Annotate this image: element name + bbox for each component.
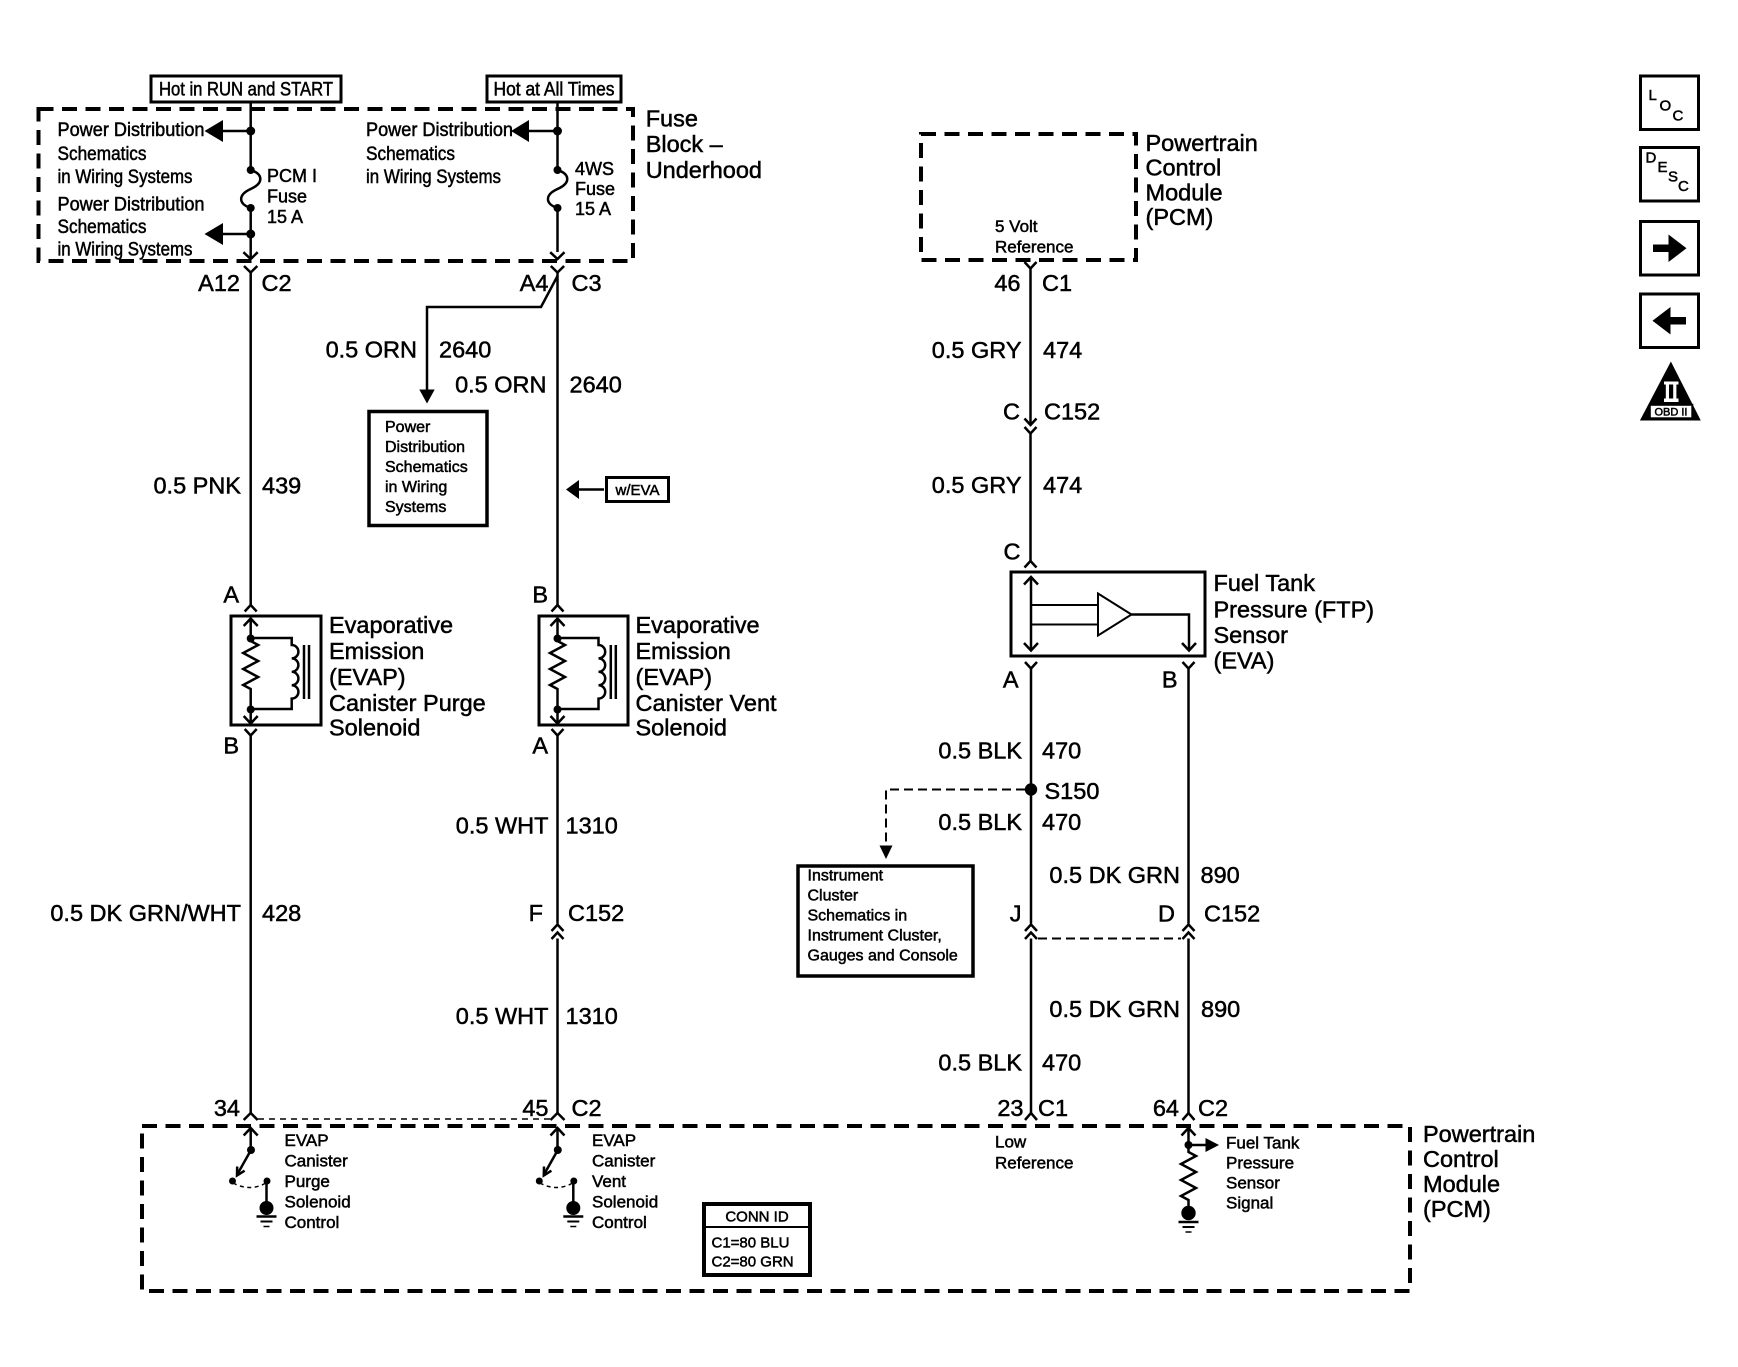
purge solenoid internal up arrow — [244, 619, 258, 627]
connector fork 46 C1 — [1025, 262, 1037, 269]
svg-text:0.5 WHT: 0.5 WHT — [456, 1003, 549, 1029]
svg-text:Powertrain: Powertrain — [1423, 1121, 1535, 1147]
svg-text:Schematics: Schematics — [58, 217, 147, 238]
svg-text:Module: Module — [1146, 179, 1223, 205]
svg-text:2640: 2640 — [570, 372, 622, 398]
svg-text:Block –: Block – — [646, 131, 724, 157]
svg-text:A: A — [1003, 667, 1019, 693]
junction dot W1 arrow1 — [246, 127, 255, 136]
purge solenoid resistor — [243, 639, 258, 710]
branch wire to power distribution box — [427, 276, 558, 390]
svg-text:C152: C152 — [568, 900, 624, 926]
svg-text:Vent: Vent — [592, 1172, 626, 1191]
svg-text:474: 474 — [1043, 337, 1082, 363]
svg-text:5 Volt: 5 Volt — [995, 217, 1038, 236]
svg-text:C2: C2 — [262, 270, 292, 296]
svg-text:Fuel Tank: Fuel Tank — [1226, 1134, 1300, 1153]
wire W1 lower vertical — [249, 736, 252, 1114]
svg-text:0.5 BLK: 0.5 BLK — [938, 809, 1022, 835]
svg-text:C2=80 GRN: C2=80 GRN — [712, 1254, 794, 1271]
svg-text:64: 64 — [1153, 1095, 1179, 1121]
ftp output wire — [1132, 615, 1190, 651]
vent driver ground — [563, 1215, 583, 1218]
vent solenoid internal up arrow — [551, 619, 565, 627]
purge solenoid internal down arrow — [249, 710, 252, 724]
fuse F2 4WS 15A — [554, 166, 562, 174]
svg-text:Sensor: Sensor — [1226, 1174, 1280, 1193]
svg-text:(EVA): (EVA) — [1214, 648, 1275, 674]
svg-text:S150: S150 — [1045, 778, 1100, 804]
w/EVA tag box — [607, 478, 669, 502]
wire W2 below C152 — [556, 939, 559, 1114]
svg-text:Control: Control — [285, 1213, 340, 1232]
icon DESC box — [1641, 148, 1699, 202]
arrow down at fuse box exit W2 — [550, 252, 564, 259]
svg-text:Signal: Signal — [1226, 1194, 1273, 1213]
svg-text:0.5 BLK: 0.5 BLK — [938, 1050, 1022, 1076]
svg-text:890: 890 — [1201, 862, 1240, 888]
purge solenoid core lines — [303, 645, 306, 699]
svg-text:Fuel Tank: Fuel Tank — [1214, 570, 1316, 596]
svg-text:Purge: Purge — [285, 1172, 330, 1191]
svg-text:470: 470 — [1042, 738, 1081, 764]
purge driver ground — [257, 1215, 277, 1218]
svg-text:0.5 ORN: 0.5 ORN — [326, 337, 417, 363]
svg-text:1310: 1310 — [566, 1003, 618, 1029]
svg-text:Sensor: Sensor — [1214, 622, 1289, 648]
svg-text:Solenoid: Solenoid — [329, 715, 420, 741]
svg-text:in Wiring Systems: in Wiring Systems — [366, 167, 501, 188]
wire W1 below fuse — [249, 208, 252, 252]
wire W3 upper vertical — [1029, 269, 1032, 425]
PCM bottom dashed box — [142, 1126, 1410, 1291]
svg-text:Canister Vent: Canister Vent — [636, 690, 778, 716]
ftp signal arrow right — [1189, 1144, 1207, 1147]
purge driver dashed throw arc — [233, 1183, 266, 1188]
svg-text:(EVAP): (EVAP) — [329, 664, 406, 690]
wire W4 from ftp B to D — [1187, 669, 1190, 924]
svg-text:C2: C2 — [1198, 1095, 1228, 1121]
svg-text:Fuse: Fuse — [575, 179, 615, 199]
svg-text:Gauges and Console: Gauges and Console — [808, 948, 958, 965]
svg-text:A12: A12 — [198, 270, 240, 296]
svg-text:A: A — [223, 582, 239, 608]
svg-text:Hot in RUN and START: Hot in RUN and START — [159, 80, 333, 101]
purge solenoid coil — [251, 638, 299, 709]
vent solenoid coil — [558, 638, 606, 709]
connector fork terminal B ftp — [1183, 662, 1195, 669]
header box Hot in RUN and START — [151, 76, 341, 102]
svg-text:in Wiring Systems: in Wiring Systems — [58, 167, 193, 188]
header box Hot at All Times — [487, 76, 621, 102]
vent solenoid bottom junction dot — [554, 706, 562, 714]
svg-text:Low: Low — [995, 1133, 1027, 1152]
vent driver dashed throw arc — [540, 1183, 573, 1188]
vent driver switch arm — [544, 1150, 558, 1174]
vent solenoid top junction dot — [554, 635, 562, 643]
svg-text:0.5 ORN: 0.5 ORN — [455, 372, 546, 398]
svg-text:15 A: 15 A — [575, 199, 611, 219]
purge solenoid bottom junction dot — [247, 706, 255, 714]
svg-text:C: C — [1673, 108, 1684, 125]
svg-text:C3: C3 — [572, 270, 602, 296]
svg-text:0.5 WHT: 0.5 WHT — [456, 813, 549, 839]
connector fork A4 C3 — [551, 266, 564, 273]
junction dot W2 arrow — [553, 127, 562, 136]
dashed link J to D — [1038, 938, 1181, 940]
wire W2 lower vertical to C152 — [556, 736, 559, 924]
svg-text:C152: C152 — [1204, 901, 1260, 927]
inline connector C C152 — [1025, 419, 1037, 426]
connector fork 45 C2 — [551, 1113, 565, 1120]
svg-text:Emission: Emission — [329, 638, 424, 664]
svg-text:C: C — [1678, 178, 1689, 195]
fuse block underhood dashed box — [39, 109, 634, 261]
svg-text:Solenoid: Solenoid — [636, 715, 727, 741]
svg-text:(PCM): (PCM) — [1146, 204, 1214, 230]
wire W2 main vertical — [556, 273, 559, 605]
splice S150 — [1025, 783, 1037, 795]
svg-text:C: C — [1003, 399, 1020, 425]
svg-text:Instrument Cluster,: Instrument Cluster, — [808, 928, 942, 945]
conn id table — [704, 1204, 810, 1275]
svg-text:Power Distribution: Power Distribution — [366, 120, 513, 141]
vent driver pivot dot — [554, 1146, 562, 1154]
connector fork below vent solenoid — [552, 729, 564, 736]
ftp signal ground — [1179, 1221, 1199, 1224]
svg-text:PCM I: PCM I — [267, 166, 317, 186]
svg-text:Cluster: Cluster — [808, 888, 859, 905]
svg-text:Power Distribution: Power Distribution — [58, 120, 205, 141]
svg-text:46: 46 — [994, 270, 1020, 296]
wire W3 below J — [1030, 939, 1033, 1114]
svg-text:EVAP: EVAP — [285, 1131, 329, 1150]
svg-text:C2: C2 — [572, 1095, 602, 1121]
svg-text:0.5 GRY: 0.5 GRY — [932, 337, 1022, 363]
svg-text:1310: 1310 — [566, 813, 618, 839]
svg-text:(EVAP): (EVAP) — [636, 664, 713, 690]
wire W4 below D — [1187, 939, 1190, 1114]
svg-text:Solenoid: Solenoid — [285, 1193, 351, 1212]
svg-text:0.5 DK GRN/WHT: 0.5 DK GRN/WHT — [50, 900, 241, 926]
icon arrow right box — [1641, 222, 1699, 276]
svg-text:Canister Purge: Canister Purge — [329, 690, 486, 716]
svg-text:OBD II: OBD II — [1654, 407, 1687, 419]
dashed link S150 to instrument cluster — [886, 790, 1025, 846]
svg-text:Powertrain: Powertrain — [1146, 130, 1258, 156]
arrow left to power distribution 2 — [223, 233, 251, 236]
svg-text:Fuse: Fuse — [646, 106, 698, 132]
svg-text:Canister: Canister — [285, 1152, 349, 1171]
svg-text:E: E — [1658, 159, 1668, 176]
vent solenoid resistor — [550, 639, 565, 710]
ftp signal ground ball — [1181, 1206, 1195, 1220]
svg-text:Module: Module — [1423, 1171, 1500, 1197]
svg-text:Power Distribution: Power Distribution — [58, 195, 205, 216]
svg-text:Instrument: Instrument — [808, 868, 884, 885]
wire W1 from header to fuse — [249, 102, 252, 168]
fuse F1 PCM I 15A — [247, 166, 255, 174]
ftp internal down arrow right — [1182, 643, 1196, 651]
svg-text:Evaporative: Evaporative — [329, 612, 453, 638]
svg-text:890: 890 — [1201, 996, 1240, 1022]
inline connector F C152 — [552, 925, 564, 932]
ftp input stubs — [1031, 604, 1098, 606]
purge solenoid top junction dot — [247, 635, 255, 643]
connector fork 23 C1 — [1025, 1113, 1037, 1120]
svg-text:Schematics: Schematics — [385, 459, 468, 476]
svg-text:EVAP: EVAP — [592, 1131, 636, 1150]
svg-text:Pressure (FTP): Pressure (FTP) — [1214, 597, 1375, 623]
ftp signal junction dot — [1185, 1141, 1193, 1149]
svg-text:B: B — [532, 582, 548, 608]
svg-text:Distribution: Distribution — [385, 439, 465, 456]
connector fork 64 C2 — [1183, 1113, 1195, 1120]
purge driver ground lead — [265, 1181, 268, 1202]
vent solenoid core lines — [610, 645, 613, 699]
purge driver switch arm — [238, 1150, 252, 1174]
svg-text:Evaporative: Evaporative — [636, 612, 760, 638]
svg-text:Pressure: Pressure — [1226, 1154, 1294, 1173]
svg-text:Canister: Canister — [592, 1152, 656, 1171]
svg-text:45: 45 — [522, 1095, 548, 1121]
reference box instrument cluster schematics — [798, 866, 973, 976]
svg-text:15 A: 15 A — [267, 207, 303, 227]
svg-text:(PCM): (PCM) — [1423, 1196, 1491, 1222]
arrow left to power distribution col2 — [529, 130, 558, 133]
svg-text:in Wiring: in Wiring — [385, 479, 447, 496]
svg-text:J: J — [1010, 901, 1022, 927]
svg-text:0.5 PNK: 0.5 PNK — [153, 473, 241, 499]
vent driver contact dots — [536, 1178, 543, 1185]
svg-text:Solenoid: Solenoid — [592, 1193, 658, 1212]
purge driver pivot dot — [247, 1146, 255, 1154]
svg-text:C: C — [1004, 539, 1021, 565]
svg-text:470: 470 — [1042, 809, 1081, 835]
svg-text:Power: Power — [385, 419, 431, 436]
svg-text:B: B — [223, 733, 239, 759]
svg-text:Hot at All Times: Hot at All Times — [494, 80, 615, 101]
svg-text:34: 34 — [214, 1095, 240, 1121]
svg-text:Schematics: Schematics — [58, 144, 147, 165]
svg-text:Reference: Reference — [995, 1154, 1073, 1173]
vent driver up arrow — [551, 1128, 565, 1136]
svg-text:23: 23 — [997, 1095, 1023, 1121]
svg-text:Schematics in: Schematics in — [808, 908, 908, 925]
svg-text:0.5 GRY: 0.5 GRY — [932, 472, 1022, 498]
ftp internal down arrow left — [1024, 643, 1038, 651]
svg-text:470: 470 — [1042, 1050, 1081, 1076]
connector fork A12 C2 — [244, 266, 257, 273]
EVAP canister purge solenoid box — [231, 616, 321, 725]
svg-text:0.5 DK GRN: 0.5 DK GRN — [1049, 862, 1180, 888]
svg-text:L: L — [1649, 87, 1657, 104]
svg-text:F: F — [529, 900, 543, 926]
ftp signal up arrow — [1182, 1128, 1196, 1136]
svg-text:0.5 DK GRN: 0.5 DK GRN — [1049, 996, 1180, 1022]
wire W3 mid vertical — [1029, 434, 1032, 561]
svg-text:2640: 2640 — [439, 337, 491, 363]
inline connector D C152 — [1183, 925, 1195, 932]
EVAP canister vent solenoid box — [539, 616, 628, 725]
svg-text:S: S — [1668, 169, 1678, 186]
icon LOC box — [1641, 76, 1699, 130]
purge driver ground ball — [260, 1201, 274, 1215]
svg-text:Schematics: Schematics — [366, 144, 455, 165]
svg-text:A: A — [532, 733, 548, 759]
arrow w/EVA to wire W2 — [578, 488, 604, 491]
svg-text:w/EVA: w/EVA — [615, 482, 660, 499]
svg-text:439: 439 — [262, 473, 301, 499]
wire W2 below fuse — [556, 208, 559, 252]
svg-text:C152: C152 — [1044, 399, 1100, 425]
vent driver ground ball — [566, 1201, 580, 1215]
purge driver up arrow — [244, 1128, 258, 1136]
svg-text:Control: Control — [1146, 155, 1222, 181]
icon arrow left box — [1641, 294, 1699, 348]
svg-text:Control: Control — [1423, 1146, 1499, 1172]
wire W1 main vertical — [249, 273, 252, 605]
svg-text:D: D — [1158, 901, 1175, 927]
svg-text:Underhood: Underhood — [646, 157, 762, 183]
fuel tank pressure sensor box — [1011, 572, 1205, 656]
svg-text:428: 428 — [262, 900, 301, 926]
icon OBD II triangle — [1640, 362, 1701, 421]
ftp op-amp triangle — [1098, 594, 1132, 636]
purge driver contact dots — [229, 1178, 236, 1185]
arrow down at fuse box exit W1 — [249, 252, 252, 259]
connector fork 34 — [244, 1113, 258, 1120]
reference box power distribution schematics — [369, 412, 487, 526]
ftp signal resistor — [1181, 1145, 1196, 1206]
svg-text:B: B — [1162, 667, 1178, 693]
svg-text:CONN ID: CONN ID — [725, 1209, 789, 1226]
svg-text:4WS: 4WS — [575, 159, 614, 179]
vent driver ground lead — [572, 1181, 575, 1202]
svg-text:C1: C1 — [1038, 1095, 1068, 1121]
svg-text:Reference: Reference — [995, 238, 1073, 257]
svg-text:Control: Control — [592, 1213, 647, 1232]
svg-text:Systems: Systems — [385, 499, 446, 516]
junction dot W1 arrow2 — [246, 230, 255, 239]
connector fork terminal A ftp — [1025, 662, 1037, 669]
inline connector J C152 — [1025, 925, 1037, 932]
svg-text:O: O — [1660, 98, 1672, 115]
ftp internal up arrow — [1024, 577, 1038, 585]
svg-text:474: 474 — [1043, 472, 1082, 498]
svg-text:Emission: Emission — [636, 638, 731, 664]
svg-text:A4: A4 — [520, 270, 549, 296]
wire W3 below ftp to S150 — [1030, 669, 1033, 924]
svg-text:0.5 BLK: 0.5 BLK — [938, 738, 1022, 764]
svg-text:C1: C1 — [1042, 270, 1072, 296]
connector fork below purge solenoid — [245, 729, 257, 736]
svg-text:C1=80 BLU: C1=80 BLU — [712, 1235, 790, 1252]
svg-text:D: D — [1646, 150, 1657, 167]
svg-text:Fuse: Fuse — [267, 187, 307, 207]
PCM top dashed box — [921, 134, 1136, 260]
svg-text:in Wiring Systems: in Wiring Systems — [58, 240, 193, 261]
wire W2 from header to fuse — [556, 102, 559, 168]
vent solenoid internal down arrow — [556, 710, 559, 724]
thin dashed link 34 to 45 — [258, 1118, 550, 1120]
arrow left to power distribution 1 — [223, 130, 251, 133]
